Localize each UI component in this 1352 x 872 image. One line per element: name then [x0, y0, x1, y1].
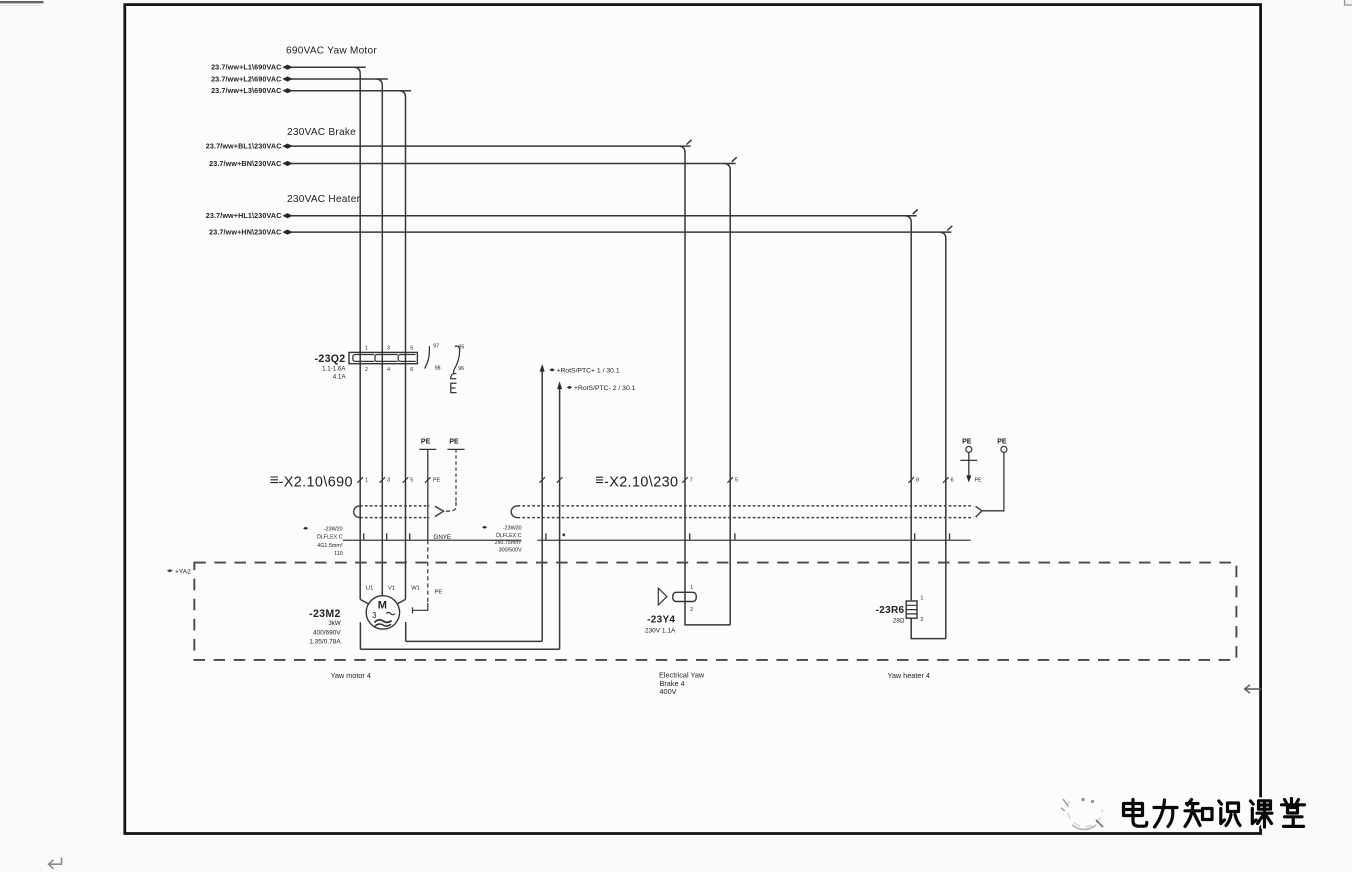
svg-text:4: 4 [387, 367, 390, 373]
breaker pole 3 [398, 355, 407, 362]
breaker band [362, 355, 416, 362]
conductor line [343, 539, 971, 541]
wire feeder heater 2 [291, 232, 951, 238]
svg-text:-23W30: -23W30 [503, 526, 522, 532]
svg-text:3: 3 [387, 346, 390, 352]
arrow diamond brake1 [283, 144, 293, 149]
tick c1 [363, 533, 365, 539]
breaker pole 2 [375, 355, 384, 362]
svg-text:1: 1 [920, 596, 923, 602]
svg-text:95: 95 [459, 344, 465, 350]
svg-text:PE: PE [433, 478, 441, 484]
terminal slash 1 [357, 477, 363, 483]
svg-text:-23Q2: -23Q2 [315, 353, 346, 365]
svg-text:1: 1 [365, 346, 368, 352]
svg-text:ÖLFLEX C: ÖLFLEX C [317, 534, 343, 541]
svg-text:230VAC Brake: 230VAC Brake [287, 127, 356, 138]
svg-text:GNYE: GNYE [434, 534, 452, 541]
svg-text:+YA2: +YA2 [175, 569, 191, 576]
watermark text halo [1124, 799, 1305, 828]
cable bundle 230 [511, 506, 982, 518]
svg-text:6: 6 [951, 478, 954, 484]
svg-text:5: 5 [410, 478, 413, 484]
aux contact 13-14 [425, 346, 430, 368]
svg-text:1: 1 [365, 478, 368, 484]
PE symbol 230 a [960, 439, 982, 484]
terminal slash PE [425, 477, 431, 483]
PTC label 1 [549, 368, 620, 375]
svg-text:-X2.10\230: -X2.10\230 [604, 475, 678, 491]
svg-text:5: 5 [410, 346, 413, 352]
terminal slash 5 [403, 477, 409, 483]
heater -23R6 [906, 601, 946, 639]
enclosure dashed box [194, 563, 1236, 660]
svg-text:-23R6: -23R6 [876, 605, 905, 616]
tick c9 [914, 533, 916, 539]
wire feeder brake 2 [291, 164, 736, 170]
wire heater 1 drop [910, 222, 912, 600]
PTC arrow 1 [540, 364, 545, 372]
arrow diamond L2 [283, 76, 293, 81]
arrow diamond L1 [283, 65, 293, 70]
corner tick heater 1 [913, 209, 918, 214]
svg-text:-23M2: -23M2 [309, 608, 341, 620]
wire feeder L3 690 [291, 91, 411, 97]
junction dot [562, 533, 565, 536]
PE symbol 690 b [446, 439, 465, 512]
svg-text:23.7/ww+L1\690VAC: 23.7/ww+L1\690VAC [211, 63, 281, 72]
svg-text:1.1-1.6A: 1.1-1.6A [322, 365, 346, 372]
terminal slash ptc2 [557, 477, 563, 483]
cable spec 23W3 [482, 526, 522, 554]
PE symbol 690 a [419, 439, 436, 541]
svg-text:3: 3 [372, 611, 376, 620]
tick c3 [409, 533, 411, 539]
wire feeder L1 690 [291, 67, 366, 73]
svg-text:-23Y4: -23Y4 [647, 615, 675, 626]
return arrow bottom-left [49, 858, 62, 869]
tick c2 [386, 533, 388, 539]
svg-text:690VAC Yaw Motor: 690VAC Yaw Motor [286, 46, 377, 57]
svg-text:23.7/ww+HN\230VAC: 23.7/ww+HN\230VAC [209, 228, 281, 237]
terminal slash ptc1 [539, 477, 545, 483]
svg-text:PE: PE [997, 439, 1007, 446]
left arrow right-middle [1245, 685, 1262, 693]
svg-text:2x0.75mm²: 2x0.75mm² [495, 540, 522, 546]
terminal slash 7 [682, 477, 688, 483]
breaker pole 1 [353, 355, 362, 362]
svg-text:7: 7 [690, 478, 693, 484]
svg-text:97: 97 [433, 344, 439, 350]
aux contact 21-22 [454, 346, 460, 373]
tick c10 [949, 533, 951, 539]
svg-text:W1: W1 [411, 586, 420, 592]
wire feeder heater 1 [291, 216, 917, 222]
svg-text:6: 6 [410, 367, 413, 373]
wire L3 drop [405, 97, 407, 599]
browser artifact top-left [0, 2, 44, 5]
svg-text:8: 8 [916, 478, 919, 484]
terminal slash 3 [380, 477, 386, 483]
svg-text:PE: PE [435, 590, 443, 596]
terminal strip X2.10-690 label [271, 475, 353, 491]
tick c8 [734, 533, 736, 539]
svg-text:3: 3 [387, 478, 390, 484]
svg-text:2: 2 [690, 607, 693, 613]
svg-text:V1: V1 [388, 586, 395, 592]
svg-text:-X2.10\690: -X2.10\690 [279, 475, 353, 491]
terminal strip X2.10-230 label [596, 475, 678, 491]
tick c5 [545, 533, 547, 539]
svg-text:1: 1 [690, 585, 693, 591]
svg-text:230VAC Heater: 230VAC Heater [287, 194, 361, 205]
PTC arrow 2 [557, 381, 562, 389]
corner tick brake 2 [732, 157, 737, 162]
terminal slash 6 [943, 477, 949, 483]
svg-text:2: 2 [365, 367, 368, 373]
svg-text:96: 96 [458, 366, 464, 372]
PTC wire 2 [360, 386, 559, 650]
svg-text:98: 98 [435, 365, 441, 371]
svg-text:23.7/ww+BL1\230VAC: 23.7/ww+BL1\230VAC [206, 142, 282, 151]
tick c7 [689, 533, 691, 539]
watermark text [1124, 799, 1305, 828]
corner tick heater 2 [947, 226, 952, 231]
svg-text:400V: 400V [660, 687, 677, 696]
svg-text:PE: PE [449, 439, 459, 446]
PE symbol 230 b [982, 439, 1007, 511]
svg-text:23.7/ww+L2\690VAC: 23.7/ww+L2\690VAC [211, 75, 281, 84]
PTC label 2 [567, 385, 636, 392]
svg-text:Yaw heater 4: Yaw heater 4 [888, 671, 930, 680]
svg-text:+RotS/PTC- 2 / 30.1: +RotS/PTC- 2 / 30.1 [574, 385, 636, 392]
wire brake 2 drop [729, 170, 731, 625]
svg-text:5: 5 [735, 478, 738, 484]
wire L1 drop [359, 74, 361, 600]
browser artifact top-right [1345, 0, 1352, 5]
svg-text:23.7/ww+L3\690VAC: 23.7/ww+L3\690VAC [211, 86, 281, 95]
wire L2 drop [381, 85, 383, 596]
svg-text:4.1A: 4.1A [333, 374, 347, 381]
svg-text:PE: PE [962, 439, 972, 446]
svg-text:1.35/0.78A: 1.35/0.78A [309, 639, 341, 646]
svg-text:ÖLFLEX C: ÖLFLEX C [496, 532, 522, 539]
trip element [451, 374, 457, 393]
svg-text:+RotS/PTC+ 1 / 30.1: +RotS/PTC+ 1 / 30.1 [557, 368, 620, 375]
PTC wire 1 [406, 368, 543, 641]
svg-text:23.7/ww+HL1\230VAC: 23.7/ww+HL1\230VAC [206, 211, 282, 220]
svg-text:M: M [378, 599, 387, 611]
arrow diamond brake2 [283, 161, 293, 166]
wire feeder brake 1 [291, 146, 691, 152]
page frame [125, 5, 1261, 834]
svg-text:PE: PE [975, 478, 983, 484]
arrow diamond L3 [283, 88, 293, 93]
svg-text:23.7/ww+BN\230VAC: 23.7/ww+BN\230VAC [209, 159, 281, 168]
svg-text:PE: PE [421, 439, 431, 446]
svg-text:230V 1.1A: 230V 1.1A [645, 628, 676, 635]
svg-text:4G1.5mm²: 4G1.5mm² [317, 543, 343, 549]
arrow diamond heater2 [283, 230, 293, 235]
breaker -23Q2 body [349, 352, 417, 363]
terminal slash 5b [727, 477, 733, 483]
cable spec 23W2 [303, 526, 343, 557]
svg-text:300/500V: 300/500V [499, 547, 522, 553]
brake -23Y4 [658, 588, 730, 625]
svg-text:110: 110 [334, 551, 343, 557]
wire brake 1 drop [684, 153, 686, 593]
watermark logo [1061, 798, 1103, 830]
svg-text:3kW: 3kW [328, 620, 341, 627]
svg-text:2: 2 [920, 617, 923, 623]
PE wire to motor dashed [427, 540, 429, 603]
wire heater 2 drop [945, 239, 947, 639]
svg-text:400/690V: 400/690V [313, 629, 341, 636]
corner tick brake 1 [687, 140, 692, 145]
arrow diamond heater1 [283, 213, 293, 218]
terminal slash 8 [908, 477, 914, 483]
svg-text:28Ω: 28Ω [893, 618, 905, 625]
wire feeder L2 690 [291, 79, 388, 85]
enclosure label [167, 569, 191, 576]
svg-text:Yaw motor 4: Yaw motor 4 [331, 671, 371, 680]
motor -23M2 [360, 596, 405, 629]
svg-text:U1: U1 [366, 586, 373, 592]
PE motor connection solid [413, 603, 428, 613]
svg-text:-23W20: -23W20 [324, 526, 343, 532]
caption electrical yaw brake [659, 671, 705, 696]
cable bundle 690 [354, 506, 444, 518]
